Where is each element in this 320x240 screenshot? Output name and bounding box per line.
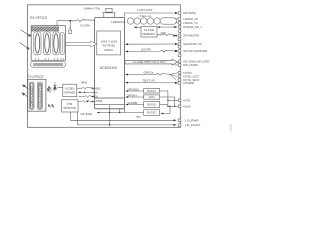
svg-text:MXTATE: MXTATE xyxy=(183,11,196,15)
svg-text:LON-CST: LON-CST xyxy=(137,8,153,12)
svg-text:COLLIMATOR: COLLIMATOR xyxy=(38,83,42,107)
svg-text:VLDD: VLDD xyxy=(80,112,92,116)
svg-text:FSYNC: FSYNC xyxy=(183,71,192,75)
svg-text:BUCK1: BUCK1 xyxy=(147,89,156,93)
svg-text:TX OPTICS: TX OPTICS xyxy=(28,75,44,79)
svg-text:TAD: TAD xyxy=(136,116,142,119)
svg-text:NDN: NDN xyxy=(93,96,98,99)
svg-text:ARRAY: ARRAY xyxy=(104,48,113,52)
svg-text:LSMOD_TN: LSMOD_TN xyxy=(183,21,198,25)
svg-text:VAUX: VAUX xyxy=(183,104,191,108)
svg-text:BUCK0: BUCK0 xyxy=(147,103,156,107)
svg-text:IBIAS: IBIAS xyxy=(81,81,88,84)
svg-text:BUCK2: BUCK2 xyxy=(147,111,156,115)
svg-text:(I2C/SPI): (I2C/SPI) xyxy=(141,47,151,51)
svg-text:SxPWR: SxPWR xyxy=(128,102,138,105)
svg-text:FSYNC_VECT: FSYNC_VECT xyxy=(183,74,199,78)
svg-text:LDN: LDN xyxy=(93,91,98,94)
svg-text:NVRAM_INF_1: NVRAM_INF_1 xyxy=(183,25,202,29)
svg-text:Flex-co: Flex-co xyxy=(140,14,152,18)
svg-text:MONITOR: MONITOR xyxy=(63,106,76,110)
svg-text:GPIOs: GPIOs xyxy=(144,70,155,74)
svg-text:SPI/I2C MASTER: SPI/I2C MASTER xyxy=(183,49,207,53)
svg-text:DIFFUSER: DIFFUSER xyxy=(30,86,34,106)
svg-text:VSTB: VSTB xyxy=(183,98,190,102)
svg-text:VPIXH: VPIXH xyxy=(128,94,137,97)
svg-text:SlaveSPI/SPI_SG: SlaveSPI/SPI_SG xyxy=(183,42,202,46)
svg-text:LANE0: LANE0 xyxy=(93,87,101,90)
svg-text:MIPI_CSPIN0 to MIPI_CSPIN3: MIPI_CSPIN0 to MIPI_CSPIN3 xyxy=(183,60,209,64)
svg-text:ATM: ATM xyxy=(95,99,103,103)
svg-text:4-LANE MIPI CSI-2 PHY: 4-LANE MIPI CSI-2 PHY xyxy=(133,60,167,64)
svg-text:VL-DIM: VL-DIM xyxy=(80,23,90,27)
svg-text:LSMOD_1P: LSMOD_1P xyxy=(183,17,198,21)
svg-text:ADSD3100: ADSD3100 xyxy=(100,66,117,70)
svg-text:RX OPTICS: RX OPTICS xyxy=(30,16,48,20)
svg-text:TEST I/F: TEST I/F xyxy=(142,79,155,83)
svg-text:SPI MASTER: SPI MASTER xyxy=(183,34,199,38)
svg-text:SPI: SPI xyxy=(161,31,166,35)
svg-text:ATPWDN: ATPWDN xyxy=(183,81,194,85)
svg-text:L9MOD(1: L9MOD(1 xyxy=(111,20,126,24)
svg-text:LD_FAULT: LD_FAULT xyxy=(185,123,201,127)
svg-text:MIPI_CKSPIN: MIPI_CKSPIN xyxy=(183,63,198,67)
svg-text:16MHz XTAL: 16MHz XTAL xyxy=(84,6,101,10)
svg-text:VPIXDIG: VPIXDIG xyxy=(128,88,140,91)
svg-text:MEMORY: MEMORY xyxy=(143,32,156,36)
svg-text:LDO: LDO xyxy=(149,95,155,99)
svg-text:DRIVER: DRIVER xyxy=(64,91,75,95)
svg-text:LD_PWR: LD_PWR xyxy=(185,118,198,122)
